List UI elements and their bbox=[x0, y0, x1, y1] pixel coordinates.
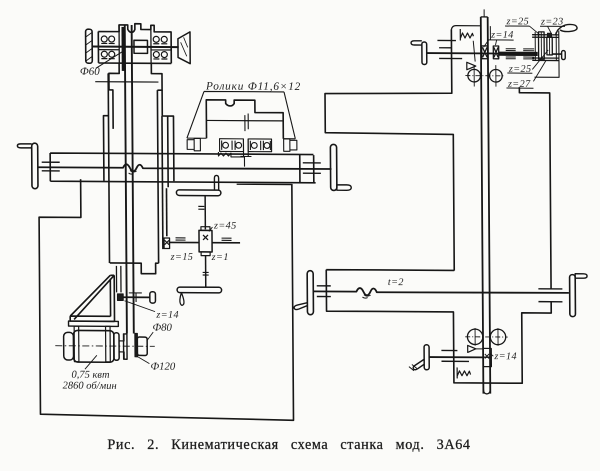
bearing ticks right bbox=[303, 163, 321, 174]
crank handle bottom with shaft bbox=[409, 345, 429, 371]
right bearing box of main shaft bbox=[300, 155, 314, 183]
bearing circles bottom-left pair bbox=[101, 51, 114, 58]
worm bracket wall right of column bbox=[165, 188, 167, 236]
bearing circles top-right pair bbox=[153, 36, 167, 43]
lower handlebar with drop grip bbox=[177, 287, 222, 306]
svg-text:Ф120: Ф120 bbox=[150, 361, 176, 373]
rotor block on spindle bbox=[134, 40, 148, 53]
enclosure top line + spring bbox=[451, 26, 481, 30]
upper vertical shaft to worm box bbox=[204, 196, 206, 230]
wheel spindle shaft (horizontal) bbox=[92, 46, 179, 49]
bevel circles pair bottom bbox=[465, 328, 508, 346]
column walls below head bbox=[109, 63, 163, 129]
z=14 clutch box on shaft bbox=[483, 348, 491, 366]
svg-text:2860 об/мин: 2860 об/мин bbox=[63, 381, 117, 392]
worm gearbox z=45 bbox=[199, 227, 212, 256]
bearing ticks on crank shaft bbox=[441, 350, 469, 361]
roller row bbox=[187, 138, 297, 157]
lower vertical shaft from worm box bbox=[205, 256, 207, 287]
main vertical shaft bbox=[481, 9, 491, 394]
crank handle left bbox=[411, 41, 427, 65]
cone pulley (hatched trapezoid) bbox=[178, 32, 190, 64]
upper handlebar bbox=[176, 175, 221, 196]
left bearing ticks bbox=[317, 286, 331, 297]
triangle symbol top bbox=[467, 62, 476, 69]
bearing ticks at wall x454 bbox=[437, 40, 462, 58]
cluster crank loop bbox=[555, 24, 577, 35]
clutch x-boxes z=14 on vertical shaft bbox=[482, 46, 499, 59]
housing bottom edge bbox=[99, 62, 172, 64]
pulley Ф120 (dark bar) bbox=[135, 334, 138, 357]
svg-text:z=45: z=45 bbox=[213, 220, 237, 231]
bearing box lines along shaft bbox=[50, 153, 315, 183]
svg-text:z=14: z=14 bbox=[490, 30, 514, 41]
svg-text:0,75 квт: 0,75 квт bbox=[71, 370, 110, 381]
trapezoid with leader-sides bbox=[187, 91, 296, 138]
frame upper-right bbox=[519, 87, 551, 289]
screw shaft with wavy break, label t=2 bbox=[313, 288, 569, 297]
column bottom profile bbox=[110, 263, 159, 274]
electric motor body bbox=[64, 326, 120, 362]
spring bottom bbox=[457, 367, 470, 378]
motor shaft and pulleys on spindle bbox=[119, 334, 124, 359]
pulley Ф80 bbox=[137, 337, 147, 355]
grinding wheel Ф60 (hatched) bbox=[86, 29, 93, 63]
svg-text:z=14: z=14 bbox=[155, 310, 179, 321]
svg-text:t=2: t=2 bbox=[388, 277, 404, 288]
z=14 clutch (black square) on spindle with knob shaft bbox=[117, 292, 155, 304]
z=14 bracket column bbox=[116, 266, 121, 293]
main shaft line with wavy break bbox=[38, 164, 332, 173]
center axis mark bbox=[245, 113, 248, 131]
svg-text:z=15: z=15 bbox=[170, 252, 194, 263]
svg-text:Ф80: Ф80 bbox=[152, 322, 172, 334]
left handwheel on main shaft bbox=[17, 143, 38, 189]
svg-text:z=1: z=1 bbox=[211, 252, 229, 263]
inner housing bbox=[206, 100, 283, 139]
horizontal shaft of top mech bbox=[427, 52, 500, 54]
gear cluster bbox=[532, 32, 565, 61]
right handwheel of main shaft bbox=[330, 144, 351, 190]
right handle of screw bbox=[570, 274, 588, 317]
motor centreline (dash-dot) bbox=[55, 345, 155, 348]
triangle symbol bottom bbox=[468, 345, 476, 352]
bearing circles top-left pair bbox=[101, 36, 114, 43]
z=15 clutch box on column wall bbox=[164, 238, 170, 249]
cluster bracket outline bbox=[534, 31, 559, 78]
vertical spindle (two lines down to pulley) bbox=[125, 25, 134, 334]
frame staircase upper bbox=[325, 29, 455, 271]
motor base plate bbox=[69, 321, 119, 326]
spring below rollers bbox=[218, 152, 244, 167]
triangle bracket (double lines) bbox=[70, 275, 115, 321]
thick splined shaft bbox=[499, 52, 538, 56]
horizontal shaft through worm box bbox=[169, 241, 240, 243]
spindle head housing outline bbox=[98, 23, 171, 63]
left handwheel of screw bbox=[294, 271, 314, 315]
bevel circles pair top bbox=[465, 65, 505, 87]
bearing circles bottom-right pair bbox=[153, 52, 167, 59]
bearing ticks at left wall bbox=[42, 162, 60, 171]
right bearing ticks bbox=[538, 289, 562, 302]
svg-text:z=14: z=14 bbox=[493, 351, 517, 362]
belt pulley tall narrow bbox=[124, 334, 128, 359]
lower box contour bbox=[326, 270, 551, 384]
